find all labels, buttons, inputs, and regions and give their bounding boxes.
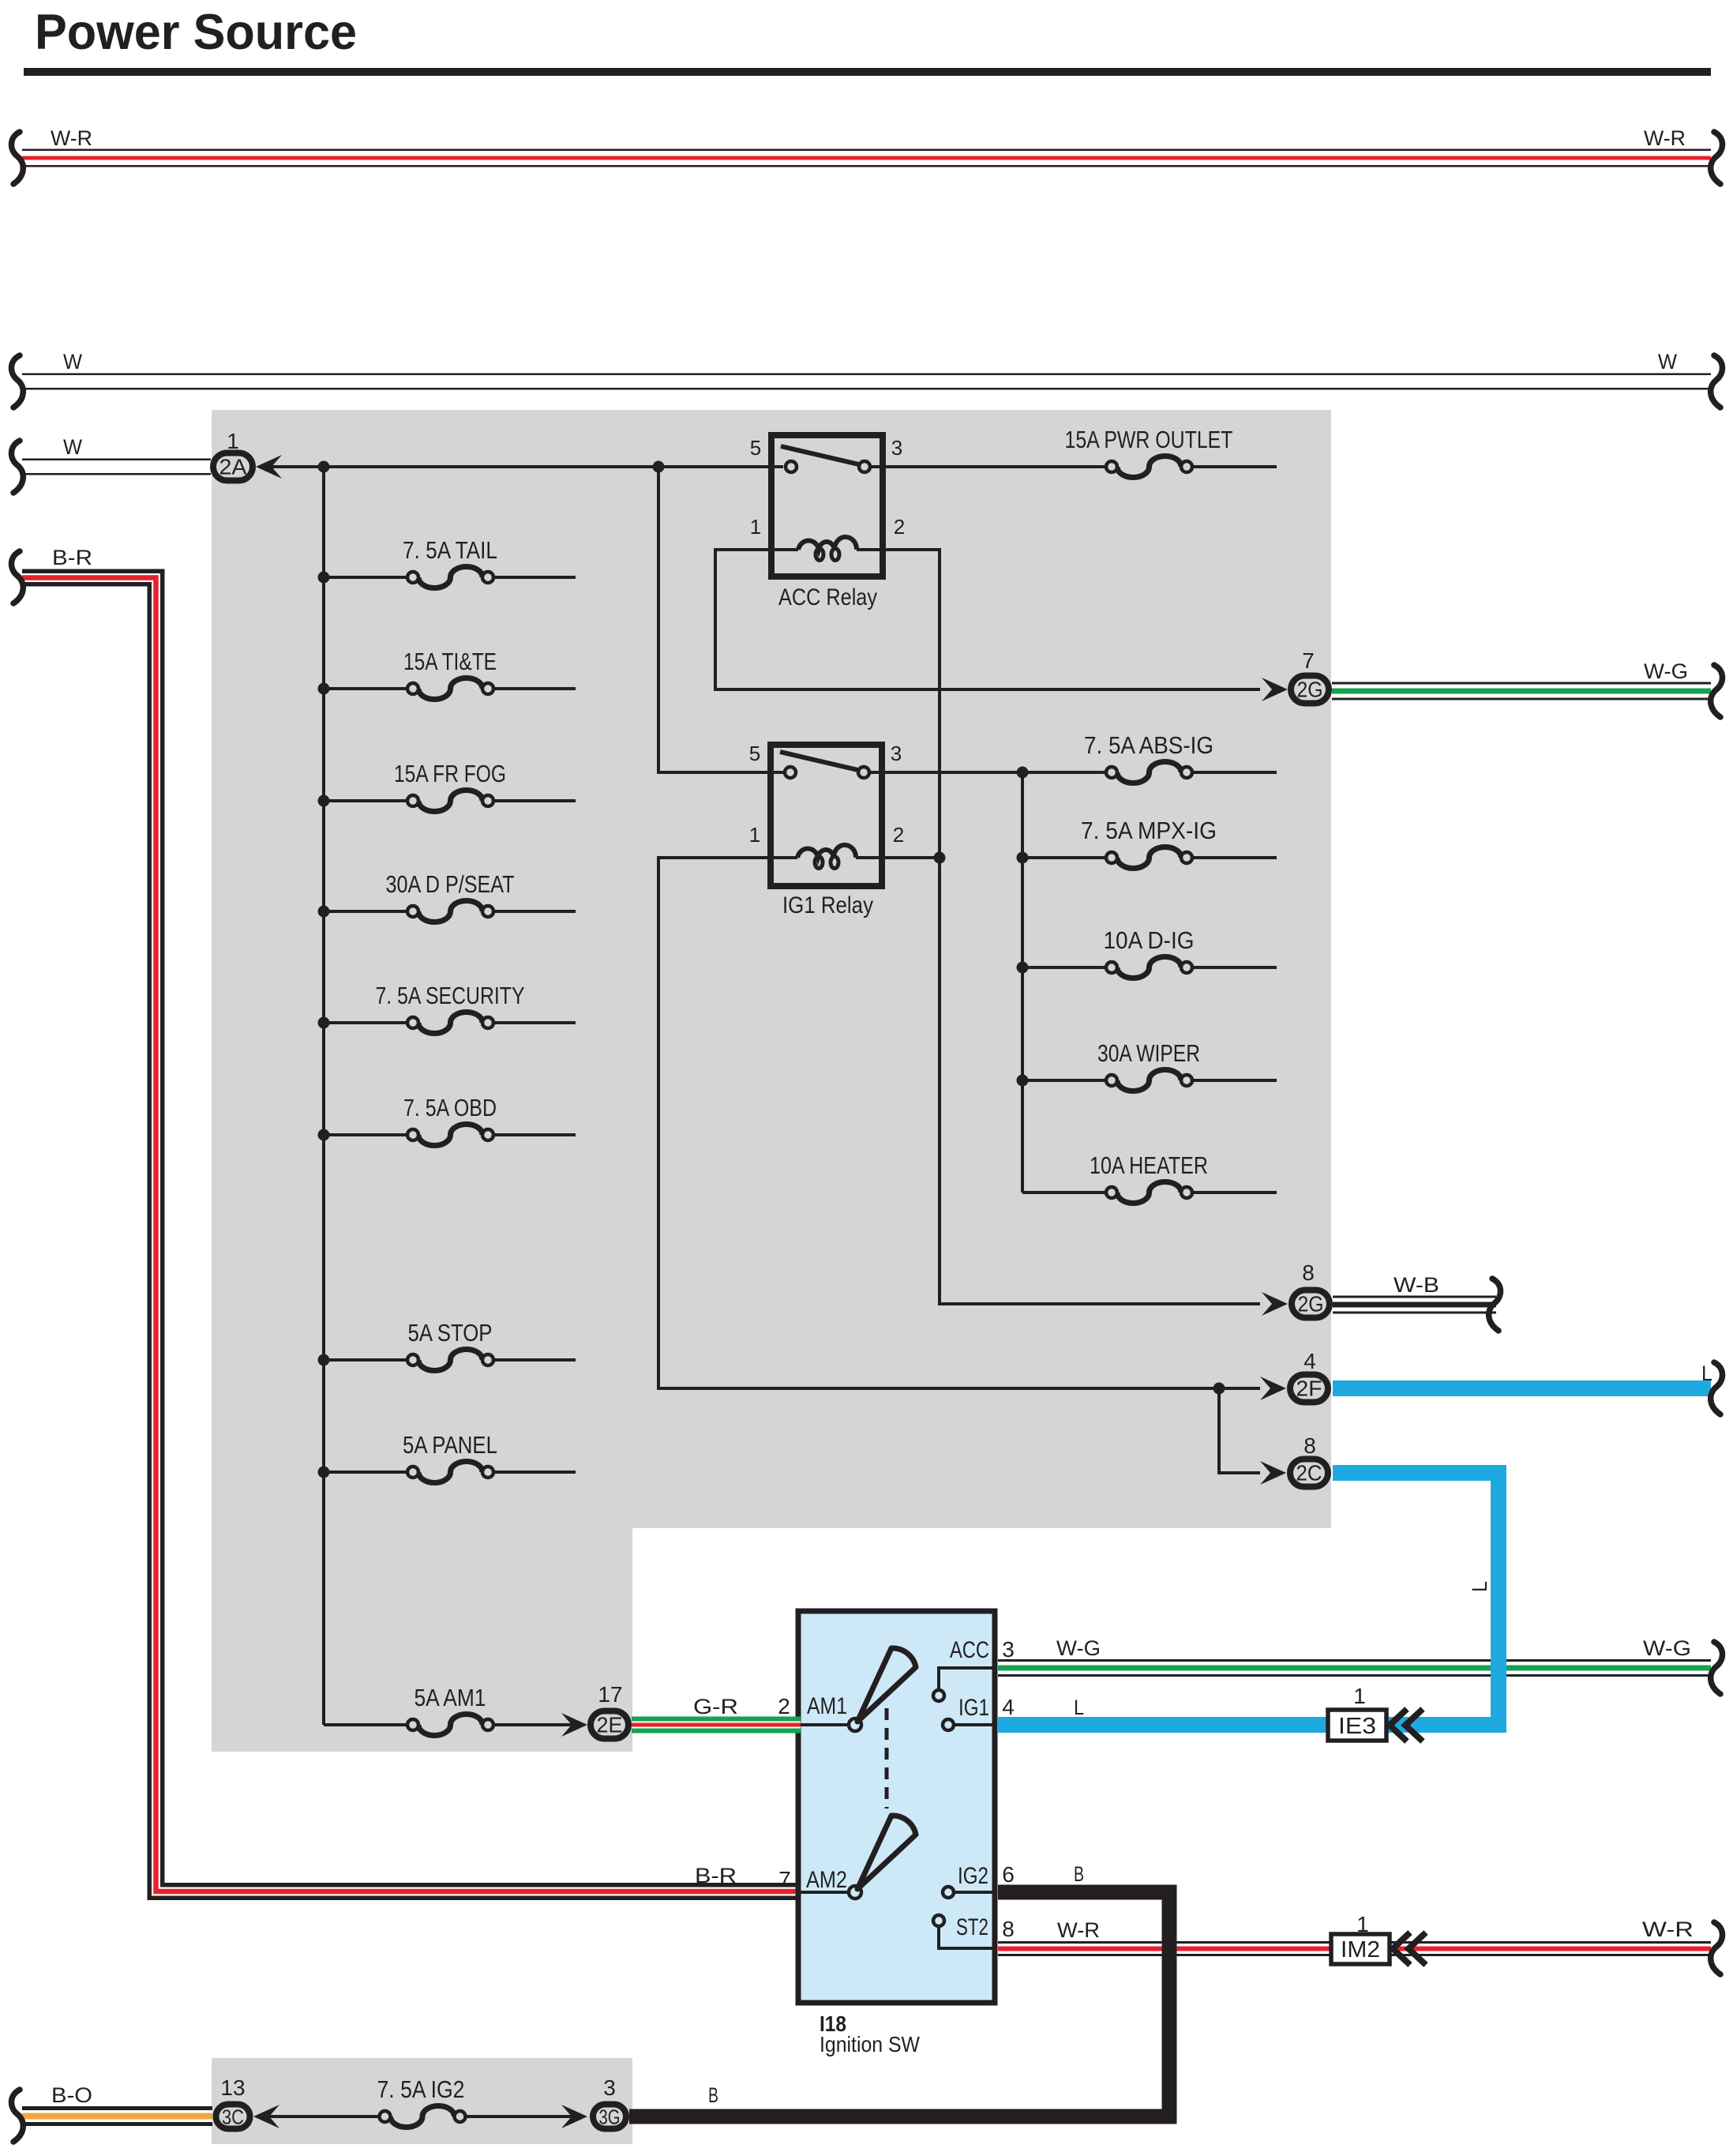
svg-text:7: 7 xyxy=(1302,648,1315,673)
connector 2F arrow xyxy=(1260,1377,1286,1400)
break symbol W left xyxy=(11,355,23,408)
wire W full-width xyxy=(22,374,1711,390)
ignition IG1 contact xyxy=(954,1723,992,1726)
node IG bus junction y=1086 xyxy=(1017,852,1029,864)
svg-text:10A D-IG: 10A D-IG xyxy=(1104,926,1195,954)
connector 2C xyxy=(1290,1459,1328,1487)
title rule xyxy=(24,68,1711,76)
svg-text:Power Source: Power Source xyxy=(35,5,357,60)
svg-text:IE3: IE3 xyxy=(1338,1714,1376,1739)
relay ACC coil pins 1-2 xyxy=(798,537,857,550)
svg-text:IM2: IM2 xyxy=(1341,1937,1380,1963)
node 2F/2C branch junction xyxy=(1213,1383,1225,1395)
wire W stub to connector 2A xyxy=(22,459,211,475)
svg-text:B-R: B-R xyxy=(52,546,92,569)
svg-text:Ignition SW: Ignition SW xyxy=(820,2032,921,2056)
fuse 15A PWR OUTLET xyxy=(1117,456,1181,478)
svg-text:3: 3 xyxy=(1002,1637,1015,1662)
break symbol B-O xyxy=(11,2090,23,2142)
fuse 5A STOP xyxy=(324,1358,407,1362)
svg-text:W-G: W-G xyxy=(1644,659,1688,683)
svg-text:W-R: W-R xyxy=(51,126,92,150)
connector 2G (pin 7) arrow xyxy=(1262,678,1288,701)
connector 3G arrow xyxy=(561,2105,587,2128)
svg-text:L: L xyxy=(1074,1696,1084,1719)
svg-text:B: B xyxy=(708,2083,718,2107)
svg-text:8: 8 xyxy=(1002,1917,1015,1941)
wire IG1 relay pin 2 to down-feed xyxy=(883,856,940,859)
node IG1 coil / ACC down-feed junction xyxy=(934,852,946,864)
fuse 15A FR FOG xyxy=(324,799,407,802)
node junction 2A line / fuse bus xyxy=(318,461,330,473)
svg-text:4: 4 xyxy=(1304,1349,1316,1373)
wire branch to connector 2C xyxy=(1219,1388,1260,1473)
connector 3G xyxy=(593,2105,626,2129)
svg-text:3G: 3G xyxy=(599,2105,621,2129)
node junction 2A line / IG1 feed xyxy=(653,461,665,473)
connector 3C arrow xyxy=(253,2105,279,2128)
svg-text:AM1: AM1 xyxy=(807,1693,847,1719)
svg-text:IG2: IG2 xyxy=(958,1863,988,1889)
svg-text:6: 6 xyxy=(1002,1862,1015,1887)
svg-text:8: 8 xyxy=(1304,1433,1316,1458)
svg-text:7. 5A SECURITY: 7. 5A SECURITY xyxy=(376,982,525,1009)
wire ACC relay pin 1 to connector 2G xyxy=(715,550,1260,689)
break symbol B-R xyxy=(11,551,23,603)
svg-text:W-G: W-G xyxy=(1056,1636,1101,1660)
wire IG1 relay pin 5 feed xyxy=(658,467,783,772)
node fuse bus junction y=872 xyxy=(318,683,330,695)
connector 3C xyxy=(216,2105,250,2129)
node fuse bus junction y=1295 xyxy=(318,1017,330,1029)
svg-text:B-O: B-O xyxy=(51,2083,92,2107)
svg-text:2E: 2E xyxy=(597,1713,623,1737)
svg-text:B: B xyxy=(1074,1862,1084,1886)
splice IM2 xyxy=(1331,1934,1390,1964)
wire W-B from 2G pin 8 xyxy=(1333,1296,1496,1314)
svg-text:5A AM1: 5A AM1 xyxy=(414,1684,486,1711)
node IG bus junction y=978 xyxy=(1017,767,1029,779)
svg-text:W-R: W-R xyxy=(1057,1918,1100,1942)
node IG bus junction y=1368 xyxy=(1017,1075,1029,1087)
connector 2E xyxy=(591,1711,628,1739)
svg-text:5: 5 xyxy=(749,742,760,765)
svg-text:IG1 Relay: IG1 Relay xyxy=(782,892,873,918)
svg-text:W: W xyxy=(1658,350,1677,374)
node fuse bus junction y=1437 xyxy=(318,1129,330,1141)
svg-text:30A D P/SEAT: 30A D P/SEAT xyxy=(386,870,515,898)
fuse 7. 5A OBD xyxy=(324,1133,407,1136)
svg-text:3: 3 xyxy=(603,2075,616,2100)
connector 2A xyxy=(213,453,253,481)
svg-text:7. 5A IG2: 7. 5A IG2 xyxy=(377,2075,465,2103)
svg-text:2: 2 xyxy=(893,823,904,847)
wire IG1 relay pin 1 to connector 2F xyxy=(658,858,1260,1388)
wire B-O xyxy=(22,2106,212,2126)
svg-text:W-G: W-G xyxy=(1643,1636,1691,1660)
svg-text:W-B: W-B xyxy=(1394,1273,1439,1297)
svg-text:15A PWR OUTLET: 15A PWR OUTLET xyxy=(1065,426,1233,453)
svg-text:W-R: W-R xyxy=(1644,126,1686,150)
wire B-R xyxy=(22,578,801,1892)
splice IM2 chevrons xyxy=(1393,1933,1410,1965)
fuse 10A D-IG xyxy=(1022,966,1106,969)
svg-text:17: 17 xyxy=(598,1682,622,1707)
svg-text:W: W xyxy=(63,350,82,374)
ignition AM2 contact xyxy=(801,1891,850,1894)
svg-text:1: 1 xyxy=(750,515,761,539)
break symbol W-G acc xyxy=(1711,1642,1723,1694)
relay IG1 coil pins 1-2 xyxy=(797,845,856,858)
gray background IG2 fuse strip xyxy=(212,2058,632,2144)
node fuse bus junction y=1014 xyxy=(318,795,330,807)
svg-text:30A WIPER: 30A WIPER xyxy=(1097,1039,1200,1067)
ignition IG2 contact xyxy=(954,1891,992,1894)
svg-text:ST2: ST2 xyxy=(956,1914,988,1940)
svg-text:G-R: G-R xyxy=(693,1695,738,1718)
fuse bus vertical xyxy=(322,467,325,1725)
wire G-R from 2E to ignition AM1 xyxy=(632,1717,801,1733)
connector 2G (pin 7) xyxy=(1291,676,1329,704)
svg-text:5A PANEL: 5A PANEL xyxy=(403,1431,497,1459)
connector 2E arrow xyxy=(561,1713,587,1737)
relay ACC switch contacts pins 5-3 xyxy=(781,446,862,465)
relay IG1 switch contacts pins 5-3 xyxy=(780,752,861,771)
fuse 7. 5A TAIL xyxy=(324,576,407,579)
svg-text:4: 4 xyxy=(1002,1695,1015,1719)
fuse 7. 5A ABS-IG xyxy=(1192,771,1277,774)
svg-text:7. 5A OBD: 7. 5A OBD xyxy=(403,1094,497,1121)
svg-text:W-R: W-R xyxy=(1642,1917,1694,1941)
wire L from 2C xyxy=(1333,1473,1499,1733)
svg-text:2G: 2G xyxy=(1297,678,1323,702)
ignition ACC contact xyxy=(939,1668,992,1690)
ignition AM1 contact xyxy=(801,1723,850,1726)
wire W-R from ignition ST2 pin 8 to IM2 xyxy=(998,1941,1711,1956)
fuse 5A PANEL xyxy=(324,1471,407,1474)
svg-text:5: 5 xyxy=(750,436,761,460)
svg-text:AM2: AM2 xyxy=(806,1867,847,1893)
wire L from 2F xyxy=(1333,1380,1711,1396)
node fuse bus junction y=1722 xyxy=(318,1354,330,1366)
svg-text:3C: 3C xyxy=(222,2105,244,2129)
svg-text:L: L xyxy=(1468,1581,1491,1592)
wire W-G from ignition ACC pin 3 xyxy=(998,1659,1711,1677)
svg-text:7. 5A TAIL: 7. 5A TAIL xyxy=(403,536,497,564)
svg-text:3: 3 xyxy=(891,436,902,460)
fuse 15A TI&TE xyxy=(324,687,407,690)
wire 3C to IG2 fuse xyxy=(268,2115,380,2118)
connector 2G (pin 8) xyxy=(1292,1290,1330,1318)
fuse 7. 5A IG2 xyxy=(391,2106,455,2128)
svg-text:1: 1 xyxy=(1353,1684,1366,1708)
splice IE3 xyxy=(1328,1710,1386,1741)
break symbol W right xyxy=(1711,355,1723,408)
ignition switch dashed link xyxy=(885,1708,889,1809)
ignition ST2 contact xyxy=(939,1927,992,1948)
svg-text:2F: 2F xyxy=(1296,1377,1322,1401)
break symbol L xyxy=(1711,1362,1723,1414)
break symbol W stub xyxy=(11,441,23,493)
svg-text:W: W xyxy=(63,435,82,459)
fuse 10A HEATER xyxy=(1022,1191,1106,1194)
wire ACC pin 3 to 15A PWR OUTLET fuse xyxy=(870,465,1106,468)
wire L from ignition IG1 pin 4 xyxy=(998,1717,1506,1733)
wire W-R top xyxy=(22,149,1711,167)
IG fuse bank vertical bus xyxy=(1021,772,1024,1193)
junction/fuse block gray background xyxy=(212,410,1331,1752)
fuse 30A D P/SEAT xyxy=(324,910,407,913)
wire B from ignition IG2 to 3G xyxy=(629,1892,1169,2117)
fuse 30A WIPER xyxy=(1022,1079,1106,1082)
node fuse bus junction y=1154 xyxy=(318,906,330,918)
wire ACC relay pin 2 down-feed xyxy=(884,550,1260,1304)
node fuse bus junction y=731 xyxy=(318,572,330,584)
node fuse bus junction y=1864 xyxy=(318,1467,330,1478)
svg-text:ACC: ACC xyxy=(950,1637,989,1663)
ignition switch lever 1 xyxy=(857,1648,916,1722)
connector 2F xyxy=(1290,1375,1328,1403)
relay ACC box xyxy=(771,435,883,577)
svg-text:3: 3 xyxy=(891,742,902,765)
fuse 7. 5A MPX-IG xyxy=(1022,856,1106,859)
connector 2G (pin 8) arrow xyxy=(1262,1292,1288,1316)
break symbol W-R right xyxy=(1711,132,1723,184)
svg-text:7: 7 xyxy=(778,1867,791,1891)
svg-text:L: L xyxy=(1701,1362,1712,1385)
svg-text:2: 2 xyxy=(778,1694,790,1718)
svg-text:2G: 2G xyxy=(1298,1292,1324,1317)
svg-text:1: 1 xyxy=(227,429,239,453)
svg-text:15A FR FOG: 15A FR FOG xyxy=(394,760,506,787)
svg-text:2A: 2A xyxy=(219,455,247,479)
svg-text:2C: 2C xyxy=(1296,1461,1322,1486)
connector 2A arrow xyxy=(256,455,282,479)
relay IG1 box xyxy=(771,745,882,886)
svg-text:B-R: B-R xyxy=(695,1864,737,1887)
svg-text:15A TI&TE: 15A TI&TE xyxy=(403,648,497,675)
break symbol W-R st2 xyxy=(1711,1922,1723,1974)
connector 2C arrow xyxy=(1260,1461,1286,1485)
svg-text:1: 1 xyxy=(749,823,760,847)
svg-text:7. 5A ABS-IG: 7. 5A ABS-IG xyxy=(1084,731,1213,759)
fuse 7. 5A SECURITY xyxy=(324,1021,407,1024)
wire IG2 fuse to 3G xyxy=(465,2115,580,2118)
ignition switch I18 box xyxy=(798,1611,995,2003)
ignition switch lever 2 xyxy=(857,1816,916,1889)
svg-text:13: 13 xyxy=(220,2075,245,2100)
fuse 5A AM1 xyxy=(324,1723,407,1726)
svg-text:ACC Relay: ACC Relay xyxy=(778,584,877,610)
node IG bus junction y=1225 xyxy=(1017,962,1029,974)
break symbol W-B xyxy=(1489,1279,1501,1331)
wire from connector 2A to ACC relay pin 5 xyxy=(268,465,783,468)
svg-text:10A HEATER: 10A HEATER xyxy=(1090,1151,1208,1179)
break symbol W-R left xyxy=(11,132,23,184)
break symbol W-G pin7 xyxy=(1711,665,1723,717)
svg-text:IG1: IG1 xyxy=(958,1695,989,1721)
wire IG1 pin 3 to IG fuse bank xyxy=(869,771,1106,774)
svg-text:8: 8 xyxy=(1302,1260,1315,1285)
svg-text:2: 2 xyxy=(894,515,905,539)
wire W-G from 2G pin 7 xyxy=(1332,682,1711,701)
svg-text:7. 5A MPX-IG: 7. 5A MPX-IG xyxy=(1081,817,1217,844)
svg-text:1: 1 xyxy=(1356,1912,1369,1936)
splice IE3 chevrons xyxy=(1390,1709,1407,1741)
svg-text:5A STOP: 5A STOP xyxy=(408,1319,493,1347)
